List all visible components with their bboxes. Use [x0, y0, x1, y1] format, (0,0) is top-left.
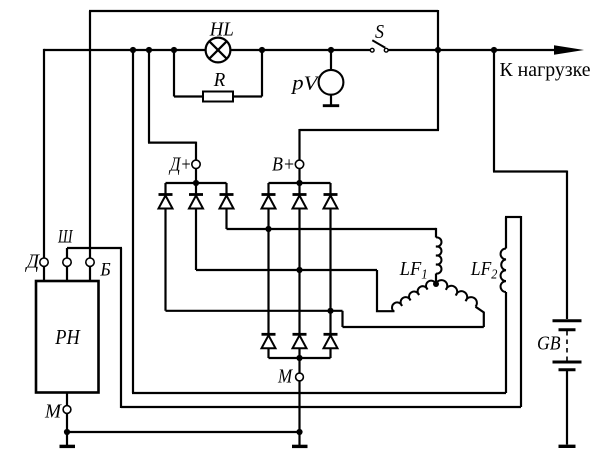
terminal Д+: [192, 160, 200, 168]
arrowhead to load: [554, 45, 584, 54]
junction bus/pV: [328, 47, 334, 53]
wire to Д+ (y=142.6): [148, 142, 196, 144]
wire bus right segment: [388, 49, 557, 51]
wire Ш riser (x=121): [120, 248, 122, 408]
battery GB cell1 short plate: [559, 328, 576, 331]
wire resistor branch left down: [173, 50, 175, 97]
voltmeter pV: [319, 70, 344, 95]
wire from resistor R: [233, 95, 262, 97]
battery GB cell2 long plate: [553, 361, 582, 364]
wire Б riser (x=90): [89, 11, 91, 258]
wire pV stub: [330, 50, 332, 70]
wire Ш stub: [66, 248, 68, 258]
wire stub top diode VD5: [298, 183, 300, 195]
choke LF2 coil: [501, 249, 506, 293]
wire LF1c foot: [476, 307, 484, 327]
junction bottom rail/M: [296, 355, 302, 361]
wire LF1a to star: [435, 274, 437, 285]
svg-text:S: S: [375, 21, 384, 43]
svg-text:GB: GB: [537, 333, 561, 355]
wire step3 jog down: [341, 311, 343, 327]
wire step3 (y=310.8): [166, 310, 343, 312]
wire stub bottom diode VD8: [298, 348, 300, 358]
wire phase1 (x=268.5): [267, 209, 269, 335]
wire VD1 anode drop: [164, 209, 166, 311]
svg-text:HL: HL: [209, 19, 234, 41]
terminal Б (regulator): [86, 258, 94, 266]
wire M ground stub: [298, 432, 300, 445]
terminal М (regulator): [63, 406, 71, 414]
wire x=133 drop: [132, 50, 134, 393]
junction Д+ rail: [193, 180, 199, 186]
junction step1/phase1: [265, 226, 271, 232]
wire stub top diode VD6: [329, 183, 331, 195]
pV terminal bar: [323, 104, 339, 107]
junction step2/phase2: [296, 267, 302, 273]
wire LF1b foot: [377, 270, 395, 311]
junction bus/lamp branch right: [259, 47, 265, 53]
stator winding LF1 phase b (left coil): [392, 281, 436, 312]
wire resistor branch right up: [261, 50, 263, 97]
wire Ш into box: [66, 266, 68, 281]
wire M drop: [298, 381, 300, 432]
voltage regulator РН: [36, 281, 99, 393]
junction М ground node (regulator): [64, 429, 70, 435]
wire top link Б—В+ (y=11): [89, 10, 438, 12]
battery GB cell1 long plate: [553, 319, 582, 322]
wire LF2 top lead: [505, 217, 507, 249]
wire В+ rail: [269, 182, 331, 184]
wire to GB (y=171.5): [493, 170, 567, 172]
junction bus/battery drop: [491, 47, 497, 53]
junction bus/x438: [435, 47, 441, 53]
wire stub top diode VD3: [225, 183, 227, 195]
wire Б into box: [89, 266, 91, 281]
diode VD8: [293, 334, 307, 348]
wire VD3 anode drop: [225, 209, 227, 230]
terminal Ш (regulator): [63, 258, 71, 266]
resistor R: [203, 92, 233, 102]
svg-text:М: М: [44, 401, 62, 423]
wire stub top diode VD4: [267, 183, 269, 195]
svg-text:R: R: [213, 69, 225, 91]
lamp HL: [206, 38, 231, 63]
wire Ш line (y=407): [121, 406, 521, 408]
wire LF2 bottom line (y=393): [132, 392, 506, 394]
wire VD2 anode drop: [195, 209, 197, 271]
wire stub bottom diode VD7: [267, 348, 269, 358]
svg-text:pV: pV: [290, 73, 321, 95]
junction В+ rail: [296, 180, 302, 186]
wire step2 (y=270): [196, 269, 377, 271]
wire М stub (regulator): [66, 393, 68, 406]
wire Д+ to rail: [195, 169, 197, 184]
ground (regulator М): [60, 445, 76, 448]
ground (battery): [559, 445, 576, 448]
wire GB bottom lead: [566, 371, 568, 445]
svg-text:Д: Д: [25, 251, 41, 273]
wire stub top diode VD2: [195, 183, 197, 195]
battery GB cell2 short plate: [559, 368, 576, 371]
wire to M terminal: [298, 358, 300, 373]
wire pV bottom stub: [330, 95, 332, 105]
battery GB dashed omitted cells: [566, 331, 568, 361]
junction bus/x133: [130, 47, 136, 53]
wire В+ stub: [298, 129, 300, 160]
switch S lever: [372, 40, 385, 48]
wire Д+ stub up: [195, 142, 197, 161]
wire step1 (y=229): [227, 228, 437, 230]
wire bottom rail: [269, 357, 331, 359]
diode VD1: [159, 195, 173, 209]
terminal Д (regulator): [40, 258, 48, 266]
svg-text:В+: В+: [272, 154, 295, 176]
diode VD3: [220, 195, 234, 209]
wire GB top lead: [566, 171, 568, 320]
wire М ground stub: [66, 432, 68, 445]
wire М drop (regulator): [66, 414, 68, 432]
svg-text:К нагрузке: К нагрузке: [500, 59, 591, 81]
junction M ground node: [296, 429, 302, 435]
wire right riser (x=438): [437, 10, 439, 130]
svg-text:Д+: Д+: [168, 154, 191, 176]
junction bus/x149: [146, 47, 152, 53]
wire stub top diode VD1: [164, 183, 166, 195]
wire x=149 drop: [148, 50, 150, 143]
wire phase2 (x=299.5): [298, 209, 300, 335]
svg-text:М: М: [277, 367, 294, 388]
wire step3 to LF1c (y=327): [343, 326, 484, 328]
diode VD2: [189, 195, 203, 209]
svg-text:РН: РН: [54, 325, 81, 349]
switch S contact right: [384, 48, 388, 52]
wire Д into box: [43, 266, 45, 281]
terminal M (rectifier): [296, 373, 304, 381]
wire stub bottom diode VD9: [329, 348, 331, 358]
wire Д+ rail: [166, 182, 227, 184]
diode VD7: [262, 334, 276, 348]
diode VD9: [324, 334, 338, 348]
terminal В+: [295, 160, 303, 168]
switch S contact left: [370, 48, 374, 52]
wire Ш jog (y=248): [67, 247, 122, 249]
wire x=494 drop: [493, 50, 495, 172]
wire LF2 bottom lead: [505, 292, 507, 393]
svg-text:Б: Б: [99, 260, 110, 281]
diode VD4: [262, 195, 276, 209]
ground (rectifier M): [292, 445, 308, 448]
junction bus/lamp branch left: [171, 47, 177, 53]
wire LF2 top link: [505, 216, 521, 218]
wire to В+ (y=130): [300, 129, 440, 131]
junction step3/phase3: [327, 308, 333, 314]
diode VD5: [293, 195, 307, 209]
diode VD6: [324, 195, 338, 209]
wire bus left segment: [44, 49, 206, 51]
junction LF1 star point: [433, 281, 439, 287]
wire В+ to rail: [298, 169, 300, 184]
wire bus middle segment: [230, 49, 370, 51]
wire x=521 drop: [520, 216, 522, 407]
wire phase3 (x=330.5): [329, 209, 331, 335]
wire Д riser (x=44): [43, 49, 45, 258]
stator winding LF1 phase c (right coil): [436, 280, 477, 307]
wire step1 to LF1a: [435, 228, 437, 238]
wire М link (y=432): [67, 431, 300, 433]
svg-text:Ш: Ш: [57, 226, 73, 247]
wire to resistor R: [174, 95, 203, 97]
